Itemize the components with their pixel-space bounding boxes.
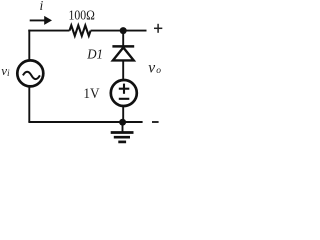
svg-text:i: i — [40, 0, 44, 13]
wire: top-left horizontal segment — [28, 30, 69, 32]
node: junction dot on bottom wire — [119, 119, 126, 126]
wire: between diode and battery — [122, 61, 124, 81]
ground bar 3 — [118, 141, 126, 144]
resistor R (100 ohm) zigzag — [70, 25, 91, 35]
svg-text:D1: D1 — [86, 47, 103, 62]
svg-text:1V: 1V — [83, 86, 100, 102]
svg-text:vo: vo — [148, 59, 161, 76]
svg-text:vi: vi — [1, 63, 10, 79]
wire: left vertical lower — [28, 87, 30, 122]
wire: diode branch upper — [122, 31, 124, 47]
node: junction dot at top of diode branch — [120, 27, 127, 34]
output minus terminal — [152, 121, 159, 123]
ground bar 2 — [114, 136, 130, 139]
wire: top-right horizontal segment — [91, 30, 147, 32]
svg-text:100Ω: 100Ω — [69, 9, 95, 24]
sine wave inside source — [23, 72, 40, 79]
source Vi circle — [17, 60, 43, 86]
wire: left vertical upper — [28, 30, 30, 61]
battery 1V circle — [111, 80, 137, 106]
wire: battery to bottom wire — [122, 106, 124, 122]
current arrow i — [30, 19, 46, 21]
wire: bottom horizontal — [28, 121, 142, 123]
output plus terminal — [154, 27, 162, 29]
battery plus sign — [119, 88, 130, 90]
diode D1 triangle (pointing up) — [113, 48, 134, 61]
ground bar 1 — [111, 131, 134, 134]
ground stub — [122, 122, 124, 132]
battery minus bar — [119, 98, 130, 100]
diode D1 cathode bar — [112, 45, 134, 48]
